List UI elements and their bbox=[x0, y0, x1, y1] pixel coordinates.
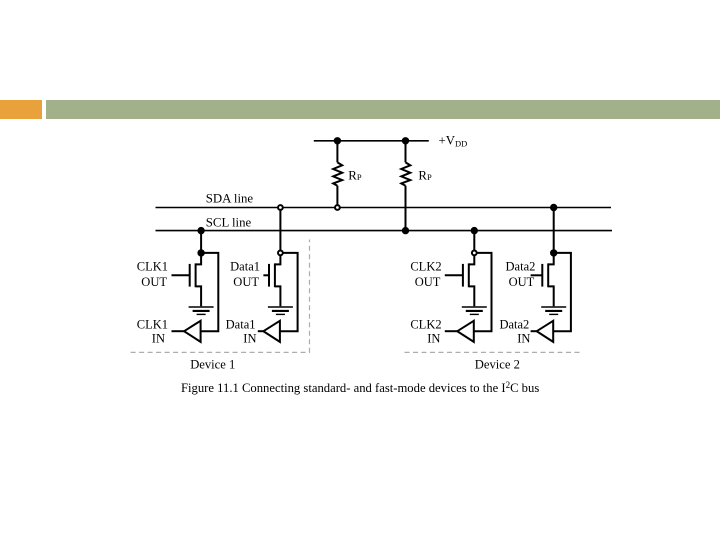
svg-text:+VDD: +VDD bbox=[439, 134, 468, 149]
svg-text:OUT: OUT bbox=[141, 275, 167, 289]
svg-text:CLK1: CLK1 bbox=[137, 260, 168, 274]
svg-text:Figure 11.1 Connecting standar: Figure 11.1 Connecting standard- and fas… bbox=[181, 380, 539, 395]
svg-text:SCL line: SCL line bbox=[206, 215, 252, 229]
svg-text:Data1: Data1 bbox=[226, 317, 256, 331]
svg-text:CLK2: CLK2 bbox=[410, 317, 441, 331]
svg-text:RP: RP bbox=[418, 168, 432, 182]
svg-text:OUT: OUT bbox=[415, 275, 441, 289]
svg-text:OUT: OUT bbox=[233, 275, 259, 289]
svg-text:SDA line: SDA line bbox=[206, 192, 254, 206]
svg-text:IN: IN bbox=[243, 332, 256, 346]
svg-text:Device 1: Device 1 bbox=[190, 357, 235, 371]
svg-text:Data2: Data2 bbox=[499, 317, 529, 331]
svg-text:CLK2: CLK2 bbox=[410, 260, 441, 274]
svg-text:CLK1: CLK1 bbox=[137, 317, 168, 331]
svg-text:IN: IN bbox=[427, 332, 440, 346]
svg-text:RP: RP bbox=[348, 168, 362, 182]
svg-text:IN: IN bbox=[152, 332, 165, 346]
svg-text:Data2: Data2 bbox=[506, 260, 536, 274]
svg-text:Data1: Data1 bbox=[230, 260, 260, 274]
svg-text:OUT: OUT bbox=[509, 275, 535, 289]
svg-text:Device 2: Device 2 bbox=[475, 357, 520, 371]
svg-text:IN: IN bbox=[517, 332, 530, 346]
